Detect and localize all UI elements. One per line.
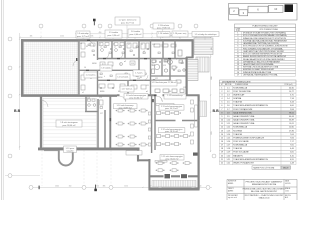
wall step left of entrance — [44, 150, 58, 152]
svg-text:1.14: 1.14 — [131, 63, 134, 65]
svg-text:150: 150 — [69, 186, 72, 188]
dimension line bottom — [30, 186, 212, 188]
svg-text:21: 21 — [221, 159, 223, 161]
svg-text:1.12: 1.12 — [226, 127, 230, 129]
svg-text:EKSPRES DO KAWY DWUKOLBOWY: EKSPRES DO KAWY DWUKOLBOWY — [243, 68, 275, 71]
svg-text:7,06: 7,06 — [290, 134, 294, 136]
section mark A bottom — [39, 185, 97, 192]
svg-text:10,60: 10,60 — [289, 127, 294, 129]
stairs interior right — [188, 60, 199, 81]
door threshold marks bottom wing — [165, 153, 198, 179]
svg-text:1.19: 1.19 — [226, 152, 230, 154]
svg-text:PLAN TECHNOLOGICZNY: PLAN TECHNOLOGICZNY — [252, 25, 278, 28]
svg-text:1.16 pom. socj.: 1.16 pom. socj. — [173, 33, 187, 35]
door thresholds cluster — [76, 40, 171, 122]
door gaps wall y95 — [120, 94, 163, 102]
kitchen equipment — [152, 44, 186, 93]
key plan rooms — [230, 5, 284, 15]
svg-text:1.13 kuchnia pow. 27,86 m2: 1.13 kuchnia pow. 27,86 m2 — [152, 82, 178, 84]
svg-text:22: 22 — [221, 162, 223, 164]
dimension line right — [210, 37, 212, 152]
svg-text:1.6 toaleta: 1.6 toaleta — [131, 30, 141, 33]
svg-text:1:100: 1:100 — [285, 191, 289, 193]
svg-text:TOALETA DLA NIEPEŁNOSPRAWNYCH: TOALETA DLA NIEPEŁNOSPRAWNYCH — [233, 104, 268, 107]
svg-text:1.18: 1.18 — [87, 98, 90, 100]
svg-text:PROJEKT BUDOWLANY ZAMIENNY: PROJEKT BUDOWLANY ZAMIENNY — [246, 180, 283, 183]
svg-text:1.8 sala treningowa: 1.8 sala treningowa — [60, 121, 78, 124]
svg-text:TOALETA: TOALETA — [233, 133, 242, 136]
svg-text:pow. 3,75 m2: pow. 3,75 m2 — [77, 36, 90, 38]
svg-text:1.3 wiatrołap: 1.3 wiatrołap — [77, 32, 89, 35]
svg-text:pow. 27,86 m2: pow. 27,86 m2 — [157, 27, 171, 29]
svg-text:1.17: 1.17 — [226, 145, 230, 147]
svg-text:1.5: 1.5 — [99, 44, 101, 46]
svg-text:8: 8 — [221, 112, 222, 114]
svg-text:SALA KONSUMPCYJNA: SALA KONSUMPCYJNA — [233, 122, 255, 125]
svg-text:20: 20 — [221, 155, 223, 157]
svg-text:635: 635 — [91, 36, 94, 38]
svg-text:MAGAZYN: MAGAZYN — [233, 154, 243, 157]
svg-text:TOALETA DLA NIEPEŁNOSPRAWNYCH: TOALETA DLA NIEPEŁNOSPRAWNYCH — [233, 158, 268, 161]
svg-text:pow. 28,15 m2: pow. 28,15 m2 — [165, 131, 179, 133]
svg-text:4: 4 — [221, 98, 222, 100]
lower cluster rooms — [85, 96, 103, 112]
svg-text:STÓŁ PRODUKCYJNY ZE ZLEWEM 1-K: STÓŁ PRODUKCYJNY ZE ZLEWEM 1-KOMOROWYM — [243, 45, 288, 48]
wall step horizontal — [137, 159, 150, 161]
title block — [227, 179, 297, 200]
svg-text:1.14 toaleta: 1.14 toaleta — [158, 32, 169, 35]
svg-text:B.B: B.B — [14, 109, 21, 113]
svg-text:TOALETA: TOALETA — [233, 101, 242, 104]
svg-text:pow. 10,77 m2: pow. 10,77 m2 — [121, 23, 135, 25]
radiators along divider — [148, 112, 151, 146]
interior walls cluster — [79, 40, 186, 95]
svg-text:LADA WYDAWCZA PODGRZEWANA: LADA WYDAWCZA PODGRZEWANA — [243, 63, 274, 66]
dimension ticks top — [19, 33, 212, 188]
grid bubbles top — [39, 24, 198, 28]
svg-text:7: 7 — [221, 109, 222, 111]
svg-text:SALA TRENINGOWA: SALA TRENINGOWA — [233, 111, 252, 114]
svg-text:7,65: 7,65 — [290, 145, 294, 147]
entrance arc — [59, 150, 73, 166]
svg-text:98,06: 98,06 — [289, 112, 294, 114]
svg-text:OPIS POMIESZCZENIA: OPIS POMIESZCZENIA — [259, 28, 278, 31]
svg-text:1.1 komunik.: 1.1 komunik. — [117, 77, 129, 79]
svg-text:w2: w2 — [124, 61, 126, 63]
svg-text:5: 5 — [221, 102, 222, 104]
svg-text:1.4 szatnia: 1.4 szatnia — [86, 74, 97, 77]
svg-text:s4: s4 — [82, 92, 84, 94]
svg-text:17: 17 — [221, 145, 223, 147]
svg-text:POM. TECHNICZNE: POM. TECHNICZNE — [233, 91, 251, 93]
svg-text:90/200: 90/200 — [92, 63, 97, 65]
svg-text:15: 15 — [221, 137, 223, 139]
svg-text:4,95: 4,95 — [290, 159, 294, 161]
svg-text:7,34: 7,34 — [290, 98, 294, 100]
svg-text:1.3: 1.3 — [227, 94, 230, 96]
grid dashed verticals — [41, 28, 196, 186]
wall room3 bottom with doors — [149, 175, 164, 177]
svg-text:6: 6 — [221, 105, 222, 107]
svg-text:1.22: 1.22 — [226, 162, 230, 164]
grid bubbles bottom — [29, 154, 216, 189]
svg-text:WITRYNA CHŁODNICZA EKSPOZYCYJN: WITRYNA CHŁODNICZA EKSPOZYCYJNA — [243, 66, 279, 69]
svg-text:SZATNIA: SZATNIA — [233, 97, 242, 100]
svg-text:1.22: 1.22 — [155, 78, 158, 80]
key plan box — [229, 4, 298, 21]
svg-text:585: 585 — [211, 47, 213, 50]
svg-text:pow. 4,60 m2: pow. 4,60 m2 — [130, 34, 143, 36]
external steps strip bottom — [152, 180, 196, 187]
svg-text:KOMUNIKACJA: KOMUNIKACJA — [233, 144, 247, 147]
svg-text:SZAFKA WISZĄCA NA NACZYNIA: SZAFKA WISZĄCA NA NACZYNIA — [243, 71, 272, 74]
svg-text:PIEC KONWEKCYJNO-PAROWY Z PODS: PIEC KONWEKCYJNO-PAROWY Z PODSTAWĄ — [243, 47, 283, 50]
svg-text:REGAŁ MAGAZYNOWY ZE STALI NIER: REGAŁ MAGAZYNOWY ZE STALI NIERDZEWNEJ — [243, 58, 284, 61]
svg-text:B.B: B.B — [213, 109, 220, 113]
svg-text:2,48: 2,48 — [290, 162, 294, 164]
svg-text:1.4: 1.4 — [227, 98, 230, 100]
svg-text:1.20: 1.20 — [226, 155, 230, 157]
stairs top right external — [194, 38, 213, 55]
svg-text:33,89: 33,89 — [289, 120, 294, 122]
svg-text:SZAFA CHŁODNICZA NA PRODUKTY S: SZAFA CHŁODNICZA NA PRODUKTY SPOŻYWCZE — [243, 37, 287, 40]
svg-text:1.21: 1.21 — [146, 85, 149, 87]
svg-text:1.16: 1.16 — [226, 141, 230, 143]
svg-text:pow. 3,34 m2: pow. 3,34 m2 — [108, 35, 121, 37]
label boxes plan — [56, 17, 219, 160]
svg-text:s2: s2 — [114, 47, 116, 49]
svg-text:1.8: 1.8 — [227, 112, 230, 114]
svg-text:19: 19 — [221, 152, 223, 154]
svg-text:LADA BAROWA Z WITRYNĄ CHŁODNIC: LADA BAROWA Z WITRYNĄ CHŁODNICZĄ — [243, 42, 279, 45]
svg-text:1.13: 1.13 — [152, 44, 155, 46]
svg-text:5,65: 5,65 — [290, 152, 294, 154]
dining1 tables — [118, 109, 145, 146]
svg-text:1.6: 1.6 — [113, 44, 115, 46]
dimension line top — [20, 34, 211, 38]
svg-text:1.10: 1.10 — [226, 120, 230, 122]
room schedule table — [220, 80, 297, 169]
rotated dim texts right — [211, 47, 213, 135]
svg-text:3: 3 — [221, 94, 222, 96]
wall 1.20 right — [97, 99, 99, 150]
svg-text:1.2 pom. techniczne: 1.2 pom. techniczne — [119, 19, 138, 22]
svg-text:1080: 1080 — [211, 76, 213, 80]
dimension numbers — [30, 32, 205, 188]
corridor right wall — [104, 110, 106, 150]
svg-text:1.9: 1.9 — [227, 116, 230, 118]
svg-text:3,75: 3,75 — [290, 94, 294, 96]
svg-text:pow. 98,06 m2: pow. 98,06 m2 — [62, 125, 76, 127]
wall dining divider — [151, 96, 153, 153]
svg-text:1.17: 1.17 — [100, 113, 103, 115]
svg-text:s3: s3 — [143, 51, 145, 53]
svg-text:1.18: 1.18 — [226, 148, 230, 150]
svg-text:1.7 pom.: 1.7 pom. — [135, 73, 143, 75]
wall hall bottom — [21, 94, 117, 96]
wall right upper — [192, 40, 194, 59]
svg-text:27,86: 27,86 — [289, 130, 294, 132]
svg-text:1.2: 1.2 — [227, 91, 230, 93]
stairs small below — [196, 57, 209, 72]
svg-text:1.12 komunikacja: 1.12 komunikacja — [167, 95, 183, 97]
svg-text:7,66: 7,66 — [290, 137, 294, 139]
radiators right wall — [191, 100, 194, 144]
wall right upper step — [186, 56, 194, 58]
room3 tables — [158, 162, 189, 172]
svg-text:1.5 toaleta: 1.5 toaleta — [101, 67, 111, 70]
svg-text:11: 11 — [221, 123, 223, 125]
svg-text:OBIEKT:: OBIEKT: — [228, 188, 234, 190]
svg-text:1.1: 1.1 — [90, 78, 92, 80]
svg-text:w1: w1 — [146, 91, 148, 93]
svg-text:SKALA 1:100: SKALA 1:100 — [259, 197, 270, 200]
chairs dots — [116, 110, 192, 171]
svg-text:POM. SOCJALNE: POM. SOCJALNE — [233, 140, 249, 143]
fixtures top cluster — [81, 43, 149, 91]
svg-text:KOMUNIKACJA: KOMUNIKACJA — [233, 86, 247, 89]
dimension line left — [19, 33, 21, 150]
svg-text:3,34: 3,34 — [290, 102, 294, 104]
svg-text:1.2: 1.2 — [141, 44, 143, 46]
counters dining rooms — [117, 104, 198, 163]
svg-text:10: 10 — [221, 120, 223, 122]
wall right wing right — [198, 95, 200, 190]
svg-text:1.16: 1.16 — [168, 91, 171, 93]
dining1 left wall — [109, 96, 111, 150]
svg-text:WIATROŁAP: WIATROŁAP — [233, 93, 245, 96]
svg-text:SALA KONSUMPCYJNA: SALA KONSUMPCYJNA — [233, 115, 255, 118]
svg-text:16: 16 — [221, 141, 223, 143]
svg-text:STÓŁ DO OBRÓBKI WSTĘPNEJ PRODU: STÓŁ DO OBRÓBKI WSTĘPNEJ PRODUKTÓW — [243, 53, 283, 56]
svg-text:44,60: 44,60 — [289, 87, 294, 89]
svg-text:1.17 komun.: 1.17 komun. — [121, 89, 132, 91]
leader lines top labels — [83, 25, 205, 40]
label below dining1 wall — [126, 151, 142, 155]
key plan filled square — [285, 4, 294, 12]
svg-text:1.13: 1.13 — [226, 130, 230, 132]
dimension line bottom-left short — [5, 175, 40, 177]
svg-text:OKAP WENTYLACYJNY PRZYŚCIENNY: OKAP WENTYLACYJNY PRZYŚCIENNY SKOŚNY — [243, 50, 285, 53]
svg-text:1.7: 1.7 — [128, 44, 130, 46]
dining2 divider wall — [155, 120, 176, 122]
svg-text:2,84: 2,84 — [290, 109, 294, 111]
svg-text:1.11: 1.11 — [227, 123, 231, 125]
section mark A top — [93, 19, 96, 26]
svg-text:TOALETA: TOALETA — [233, 147, 242, 150]
svg-text:BASEN JEDNOKOMOROWY DO MYCIA G: BASEN JEDNOKOMOROWY DO MYCIA GARNKÓW — [243, 55, 286, 58]
wall mid horizontal right wing top — [117, 94, 200, 96]
kitchen walls — [151, 75, 187, 77]
svg-text:1210: 1210 — [124, 186, 128, 188]
svg-text:90/200: 90/200 — [100, 91, 104, 93]
svg-text:socjalne: socjalne — [66, 151, 74, 153]
svg-text:NA LOKAL GASTRONOMICZNY: NA LOKAL GASTRONOMICZNY — [251, 190, 278, 193]
svg-text:385: 385 — [103, 186, 106, 188]
svg-text:pow. 30,11 m2: pow. 30,11 m2 — [166, 158, 180, 160]
exterior wall top — [21, 39, 194, 41]
legend rows — [235, 32, 296, 77]
svg-text:pow. 30,11 m2: pow. 30,11 m2 — [165, 108, 179, 110]
dining2 tables — [157, 112, 188, 146]
svg-text:9: 9 — [221, 116, 222, 118]
svg-text:1.3: 1.3 — [80, 43, 82, 45]
svg-text:2040: 2040 — [55, 186, 59, 188]
wall bottom wing — [149, 188, 200, 191]
svg-text:pow. 44,64 m2: pow. 44,64 m2 — [129, 97, 143, 99]
svg-text:80: 80 — [140, 77, 142, 79]
svg-text:POMIESZCZENIE GOSPODARCZE: POMIESZCZENIE GOSPODARCZE — [233, 136, 264, 139]
svg-text:KOMUNIKACJA: KOMUNIKACJA — [233, 126, 247, 129]
svg-text:1.21: 1.21 — [226, 159, 230, 161]
svg-text:1.9 schody do wiatrołapu: 1.9 schody do wiatrołapu — [194, 33, 216, 36]
grid bubbles left — [8, 37, 12, 178]
svg-text:WĘZEŁ PORZĄDKOWY: WĘZEŁ PORZĄDKOWY — [233, 161, 254, 164]
tiny annotations cluster — [82, 46, 178, 94]
exterior wall left — [21, 39, 23, 96]
svg-text:POM. SOCJALNE: POM. SOCJALNE — [233, 151, 249, 154]
svg-text:2: 2 — [221, 91, 222, 93]
svg-text:1.7: 1.7 — [227, 109, 230, 111]
svg-text:90: 90 — [86, 46, 88, 48]
steps right of lower wing — [200, 101, 207, 117]
svg-text:BRANŻA ARCHITEKTONICZNA: BRANŻA ARCHITEKTONICZNA — [252, 183, 277, 186]
svg-text:4,46: 4,46 — [290, 148, 294, 150]
svg-text:MYJNIA ZE STOŁAMI WYDAWCZYMI I: MYJNIA ZE STOŁAMI WYDAWCZYMI I ZMYWARKĄ — [243, 32, 286, 35]
legend table — [235, 24, 296, 32]
svg-text:SALA KONSUMPCYJNA: SALA KONSUMPCYJNA — [233, 119, 255, 122]
wall lower-left vertical — [148, 159, 150, 190]
svg-text:1.1: 1.1 — [227, 87, 230, 89]
wall right mid — [186, 57, 188, 96]
wall step down vertical — [137, 148, 139, 162]
svg-text:KUCHNIA: KUCHNIA — [233, 129, 242, 132]
svg-text:06.2019: 06.2019 — [285, 183, 291, 185]
svg-text:10,77: 10,77 — [289, 91, 294, 93]
svg-text:k1: k1 — [155, 61, 157, 63]
wall 1.20 left — [40, 96, 42, 149]
svg-text:1.6: 1.6 — [227, 105, 230, 107]
svg-text:RAZEM POW. UŻYTKOWA:: RAZEM POW. UŻYTKOWA: — [253, 166, 275, 169]
svg-text:2120: 2120 — [60, 36, 64, 38]
svg-text:14: 14 — [221, 134, 223, 136]
svg-text:1.5 toaleta: 1.5 toaleta — [109, 31, 119, 34]
svg-text:1.4: 1.4 — [84, 67, 86, 69]
svg-text:7,17: 7,17 — [290, 141, 294, 143]
svg-text:POM. PORZĄDKOWE: POM. PORZĄDKOWE — [233, 108, 253, 111]
svg-text:1.14: 1.14 — [226, 134, 230, 136]
svg-text:1.19 pom.: 1.19 pom. — [66, 148, 75, 150]
svg-text:1525: 1525 — [211, 131, 213, 135]
svg-text:UMYWALKA Z BATERIĄ BEZDOTYKOWĄ: UMYWALKA Z BATERIĄ BEZDOTYKOWĄ — [243, 73, 278, 76]
sheet border left — [1, 0, 3, 200]
svg-text:pow. 33,89 m2: pow. 33,89 m2 — [119, 107, 133, 109]
svg-text:1.5: 1.5 — [227, 102, 230, 104]
svg-text:30,11: 30,11 — [289, 123, 294, 125]
svg-text:1.13: 1.13 — [163, 65, 166, 67]
svg-text:NR RYS.: NR RYS. — [285, 195, 292, 197]
svg-text:KUCHNIA GAZOWA 4-PALNIKOWA Z P: KUCHNIA GAZOWA 4-PALNIKOWA Z PIEKARNIKIE… — [243, 39, 287, 42]
svg-text:185: 185 — [30, 36, 33, 38]
door arcs — [41, 41, 162, 107]
svg-text:s1: s1 — [100, 47, 102, 49]
svg-text:44,64: 44,64 — [289, 116, 294, 118]
svg-text:k2: k2 — [176, 67, 178, 69]
svg-text:18: 18 — [221, 148, 223, 150]
wall 1.20 bottom — [38, 147, 140, 150]
svg-text:4,60: 4,60 — [290, 105, 294, 107]
hall 1.20 floor lines — [43, 99, 97, 148]
totals row — [252, 166, 281, 169]
label box texts — [60, 19, 216, 161]
key plan numbers — [233, 7, 277, 15]
svg-text:ZMYWARKA DO NACZYŃ Z WYPARZANI: ZMYWARKA DO NACZYŃ Z WYPARZANIEM — [243, 60, 280, 63]
extra cluster marks — [88, 44, 183, 89]
svg-text:STÓŁ Z DWOMA ZLEWOZMYWAKAMI I: STÓŁ Z DWOMA ZLEWOZMYWAKAMI I ZMYWARKĄ — [243, 34, 287, 37]
svg-text:6,10: 6,10 — [290, 155, 294, 157]
svg-text:17: 17 — [237, 74, 239, 76]
svg-text:1: 1 — [221, 87, 222, 89]
svg-text:380,09: 380,09 — [283, 167, 289, 169]
svg-text:80/200: 80/200 — [98, 77, 103, 79]
svg-text:90: 90 — [118, 91, 120, 93]
svg-text:INWESTOR:: INWESTOR: — [228, 181, 237, 183]
big hall hatch — [24, 42, 79, 95]
svg-text:1.12: 1.12 — [183, 87, 186, 89]
svg-text:13: 13 — [221, 130, 223, 132]
svg-text:1.15: 1.15 — [226, 137, 230, 139]
svg-text:12: 12 — [221, 127, 223, 129]
svg-text:1.19: 1.19 — [99, 97, 102, 99]
